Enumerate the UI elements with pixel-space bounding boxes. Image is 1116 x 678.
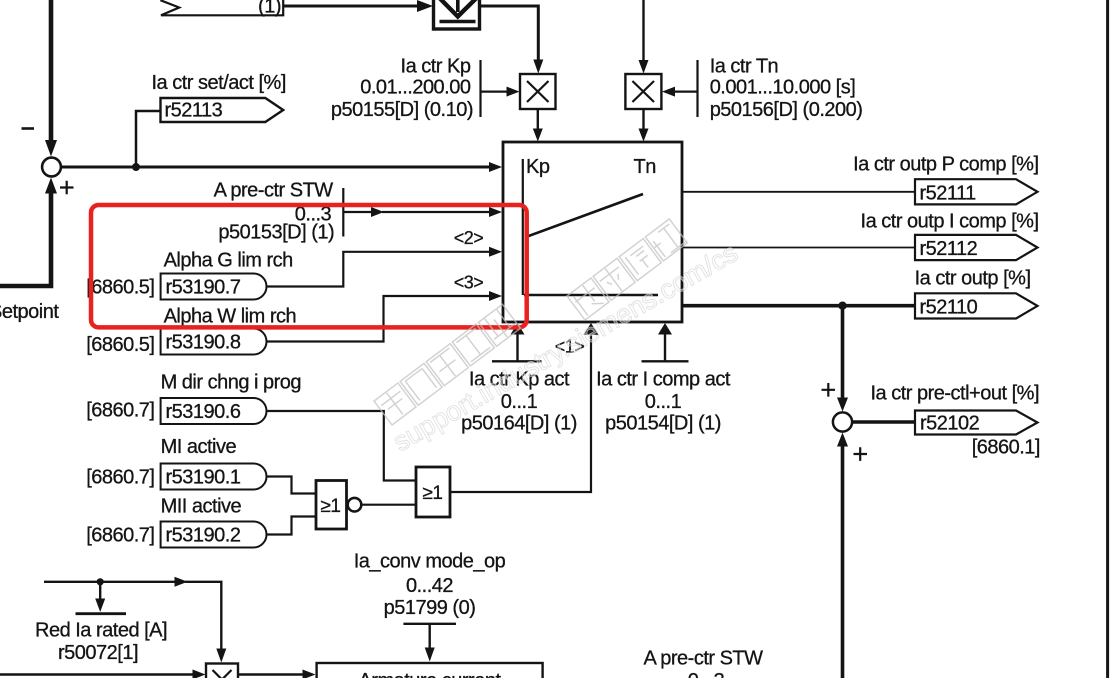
svg-text:Ia_conv mode_op: Ia_conv mode_op [354,551,506,573]
svg-text:p50155[D] (0.10): p50155[D] (0.10) [331,99,473,121]
svg-text:[6860.7]: [6860.7] [86,466,154,488]
svg-text:Ia ctr set/act [%]: Ia ctr set/act [%] [152,72,286,94]
svg-text:r53190.7: r53190.7 [166,277,241,299]
svg-text:Ia ctr pre-ctl+out [%]: Ia ctr pre-ctl+out [%] [870,383,1039,405]
svg-text:A pre-ctr STW: A pre-ctr STW [214,180,334,202]
svg-text:(1): (1) [258,0,281,18]
svg-text:r53190.2: r53190.2 [166,525,241,547]
svg-text:p50156[D] (0.200): p50156[D] (0.200) [710,99,863,121]
svg-text:Alpha W lim rch: Alpha W lim rch [164,306,297,328]
svg-text:[6860.7]: [6860.7] [86,399,154,421]
svg-text:0...42: 0...42 [406,575,453,597]
svg-text:Ia ctr outp [%]: Ia ctr outp [%] [915,267,1031,289]
svg-text:r52112: r52112 [920,238,978,260]
svg-text:r53190.1: r53190.1 [166,467,241,489]
svg-text:Tn: Tn [634,156,656,178]
svg-text:<2>: <2> [454,228,484,248]
svg-text:p50164[D] (1): p50164[D] (1) [461,413,577,435]
svg-text:Ia ctr I comp act: Ia ctr I comp act [596,369,731,391]
svg-text:Alpha G lim rch: Alpha G lim rch [164,250,293,272]
svg-text:MII active: MII active [161,495,242,517]
svg-text:<3>: <3> [454,272,484,292]
svg-text:0.01...200.00: 0.01...200.00 [360,76,471,98]
svg-text:Armature current: Armature current [358,670,501,678]
svg-text:A pre-ctr STW: A pre-ctr STW [643,648,763,670]
svg-text:0...3: 0...3 [688,670,725,678]
svg-text:Ia ctr Kp: Ia ctr Kp [401,55,471,77]
svg-text:r50072[1]: r50072[1] [58,642,138,664]
svg-text:r52110: r52110 [920,296,978,318]
svg-text:M dir chng i prog: M dir chng i prog [161,372,301,394]
svg-text:Kp: Kp [526,156,550,178]
svg-text:≥1: ≥1 [321,496,341,517]
svg-text:r52113: r52113 [165,100,223,122]
svg-text:0...1: 0...1 [645,391,682,413]
svg-text:Ia ctr Tn: Ia ctr Tn [710,55,779,77]
svg-text:[6860.1]: [6860.1] [972,437,1040,459]
svg-text:r52102: r52102 [920,413,980,435]
svg-text:MI active: MI active [161,436,237,458]
svg-text:Red Ia rated [A]: Red Ia rated [A] [35,620,167,642]
svg-text:p50153[D] (1): p50153[D] (1) [218,222,334,244]
svg-text:Ia ctr outp I comp [%]: Ia ctr outp I comp [%] [861,210,1039,232]
svg-text:r53190.8: r53190.8 [166,332,241,354]
svg-text:p50154[D] (1): p50154[D] (1) [605,413,721,435]
svg-text:Setpoint: Setpoint [0,301,59,323]
svg-text:0.001...10.000 [s]: 0.001...10.000 [s] [710,76,856,98]
svg-text:[6860.7]: [6860.7] [86,524,154,546]
svg-text:p51799 (0): p51799 (0) [384,597,476,619]
svg-text:r52111: r52111 [920,182,977,204]
svg-text:Ia ctr outp P comp [%]: Ia ctr outp P comp [%] [853,153,1038,175]
svg-text:[6860.5]: [6860.5] [86,334,154,356]
svg-text:[6860.5]: [6860.5] [86,276,154,298]
svg-text:≥1: ≥1 [423,483,443,504]
svg-text:r53190.6: r53190.6 [166,401,241,423]
